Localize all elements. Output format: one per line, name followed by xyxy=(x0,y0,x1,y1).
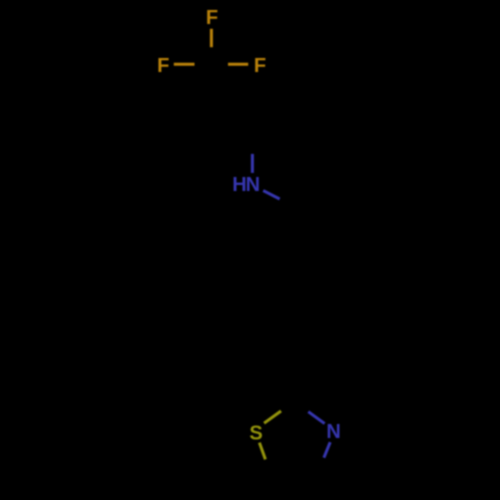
svg-text:F: F xyxy=(206,7,218,29)
svg-text:N: N xyxy=(326,421,340,443)
svg-text:H: H xyxy=(232,174,246,196)
svg-text:S: S xyxy=(249,423,262,445)
svg-text:N: N xyxy=(246,174,260,196)
svg-text:F: F xyxy=(254,55,266,77)
svg-text:F: F xyxy=(157,55,169,77)
